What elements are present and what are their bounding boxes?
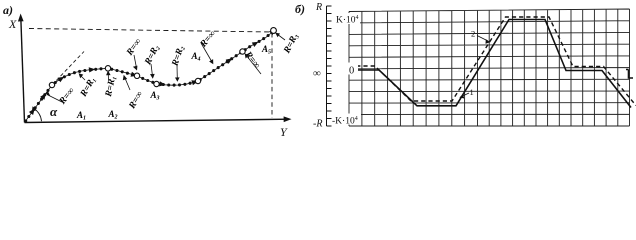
node A2 open circle [105, 66, 110, 71]
svg-text:2: 2 [471, 29, 475, 39]
svg-text:X: X [8, 17, 17, 31]
axis X arrowhead [18, 14, 24, 22]
svg-text:R=R1: R=R1 [78, 76, 98, 100]
svg-text:-R: -R [313, 119, 322, 130]
label R=R2 left [143, 44, 162, 68]
svg-text:R=∞: R=∞ [57, 86, 77, 108]
leader R=inf above segment5 [201, 43, 212, 62]
leader R=inf above segment3 [134, 55, 137, 68]
leader label 1 [462, 93, 470, 97]
white patch K10 [335, 13, 360, 24]
svg-text:б): б) [295, 2, 305, 16]
svg-text:R=∞: R=∞ [127, 90, 145, 112]
label R=inf above segment5 [198, 29, 218, 50]
leader R=inf at arc3 [246, 55, 261, 74]
right end mark [626, 70, 633, 79]
svg-text:-K·104: -K·104 [332, 116, 358, 127]
label R=inf at arc3 [242, 49, 262, 71]
trajectory beads [24, 34, 270, 123]
label R=inf segment1 [57, 86, 77, 108]
svg-text:K·104: K·104 [336, 15, 359, 26]
leader R=R2 left [151, 64, 153, 76]
svg-text:1: 1 [470, 87, 474, 97]
white patch -K10 [333, 114, 361, 125]
label R=R3 [282, 32, 301, 56]
svg-text:R=R2: R=R2 [143, 44, 162, 68]
axis ticks [327, 6, 332, 126]
node A5 open circle [240, 49, 245, 54]
dashed top guide line [29, 29, 272, 33]
axis Y arrowhead [284, 116, 292, 122]
dashed tangent line at first transition [52, 52, 84, 86]
leader R=R2 right [176, 65, 178, 79]
svg-text:A5: A5 [261, 44, 271, 56]
svg-text:A1: A1 [76, 110, 86, 122]
alpha arc arrowhead [32, 106, 37, 112]
node A3 open circle [134, 73, 139, 78]
leader R=R1 left [80, 75, 85, 80]
trajectory curve [25, 32, 274, 123]
svg-text:∞: ∞ [313, 68, 321, 80]
leader R=inf segment1 [47, 95, 62, 103]
svg-text:R=R2: R=R2 [170, 45, 187, 69]
axis Y (horizontal) [25, 119, 289, 122]
svg-text:0: 0 [349, 66, 354, 77]
axis bracket vertical [326, 6, 328, 126]
label R=inf below segment3 [127, 90, 145, 112]
leader R=inf below segment3 [125, 77, 131, 90]
leader R=R3 [277, 34, 285, 40]
svg-text:R=∞: R=∞ [198, 29, 218, 50]
waveform 1 solid [349, 20, 631, 108]
leader R=R1 right [107, 73, 109, 81]
grid [349, 9, 630, 126]
svg-text:A2: A2 [108, 109, 118, 121]
trajectory arrowheads [29, 29, 276, 115]
svg-text:R=R3: R=R3 [282, 32, 301, 56]
svg-text:A3: A3 [150, 90, 160, 102]
node A1 open circle [49, 82, 54, 87]
label R=R1 right [104, 75, 119, 98]
node A3b open circle [154, 81, 159, 86]
label R=R1 left [78, 76, 98, 100]
svg-text:α: α [50, 104, 58, 119]
waveform 2 dashed [349, 17, 636, 106]
white patch 0 [347, 63, 358, 75]
label R=inf above segment3 [125, 37, 144, 59]
svg-text:R=R1: R=R1 [104, 75, 119, 98]
alpha angle arc [34, 109, 42, 122]
svg-text:A4: A4 [191, 51, 201, 63]
svg-text:а): а) [3, 3, 13, 17]
svg-text:R: R [315, 2, 322, 13]
svg-text:Y: Y [280, 125, 288, 136]
leader label 2 [477, 36, 488, 42]
end node open circle [271, 28, 277, 34]
axis X (vertical) [21, 17, 25, 123]
label R=R2 right [170, 45, 187, 69]
node A4 open circle [195, 78, 200, 83]
dashed right guide line [271, 33, 273, 118]
